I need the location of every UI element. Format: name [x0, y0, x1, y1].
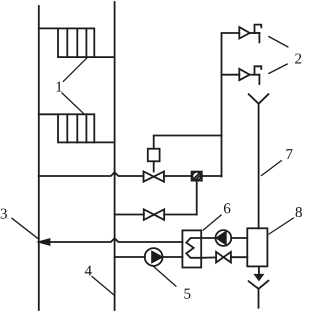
- wire: bypass line from right riser: [115, 214, 144, 216]
- radiator R1 (label 1, upper): [58, 28, 94, 57]
- pointer line label 7: [261, 161, 281, 176]
- strainer (hatched square): [192, 172, 202, 181]
- wire: supply pipe to radiator R1: [39, 27, 58, 29]
- label 1: [57, 82, 62, 92]
- wire: impulse line from regulator to riser pipe: [154, 136, 222, 149]
- wire: strainer to riser pipe corner: [202, 175, 222, 177]
- wire: vertical pipe to check valves: [222, 33, 240, 177]
- label 8: [296, 207, 302, 217]
- label 5: [184, 289, 190, 299]
- wire: radiator R1 outlet to right riser: [94, 56, 114, 58]
- wire: valve to tank 8: [231, 256, 247, 258]
- wire: heat exchanger to pump P2: [201, 237, 215, 239]
- drain funnel Y symbol: [249, 281, 269, 308]
- wire: strainer down to bypass valve line: [196, 181, 198, 215]
- wire: radiator R2 outlet to right riser: [94, 141, 114, 143]
- label 4: [85, 266, 92, 276]
- check valve upper (label 2): [239, 25, 261, 43]
- label 6: [224, 203, 230, 213]
- pump upper right (circle with left triangle): [216, 230, 232, 246]
- bypass valve (bowtie): [144, 209, 164, 220]
- pipe riser right (return): [114, 2, 116, 310]
- pointer line label 4: [92, 277, 114, 296]
- wire: branch to check valve 2: [222, 74, 240, 76]
- pointer line label 2 upper: [269, 37, 288, 48]
- label 2: [295, 54, 301, 64]
- radiator R2 (label 1, lower): [58, 114, 94, 142]
- wire: return line with arrow to left riser, hop over right riser: [50, 238, 183, 242]
- wire: pump to tank 8: [231, 237, 247, 239]
- pointer line label 8: [269, 218, 294, 234]
- wire: tank drain stem: [258, 266, 260, 274]
- check valve lower (label 2): [239, 66, 261, 84]
- stem of regulating valve: [153, 161, 155, 171]
- wire: supply pipe to radiator R2: [39, 113, 58, 115]
- valve near tank (bowtie): [216, 252, 231, 263]
- regulating valve body (bowtie): [144, 172, 165, 182]
- pointer line label 6: [203, 215, 221, 230]
- pointer line label 5: [152, 266, 176, 287]
- wire: pump to heat exchanger: [163, 256, 183, 258]
- tank 8 (rectangle): [247, 228, 267, 266]
- pointer line label 2 lower: [269, 64, 288, 74]
- pipe 7 vertical line: [258, 104, 260, 229]
- pipe riser left (supply): [38, 6, 40, 310]
- wire: heat exchanger bottom to valve: [201, 256, 216, 258]
- pump P5 (circle with triangle): [145, 248, 163, 266]
- label 3: [1, 209, 7, 219]
- pointer line label 1 to radiator R2: [62, 93, 84, 114]
- wire: valve to strainer: [164, 175, 192, 177]
- heat exchanger U6 (rect with coil): [182, 230, 201, 267]
- drain arrowhead: [255, 275, 262, 280]
- wire: pump suction line from right riser: [115, 256, 145, 258]
- wire: hot line y176 from left riser with hop over right riser: [39, 172, 144, 176]
- wire: bypass valve to strainer drop: [164, 214, 197, 216]
- actuator box of regulating valve: [148, 149, 160, 162]
- air vent Y symbol top: [249, 94, 269, 104]
- label 7: [286, 149, 292, 159]
- pointer line label 3: [12, 218, 38, 238]
- pointer line label 1 to radiator R1: [63, 58, 87, 82]
- arrowhead on return line (node 3): [39, 239, 49, 245]
